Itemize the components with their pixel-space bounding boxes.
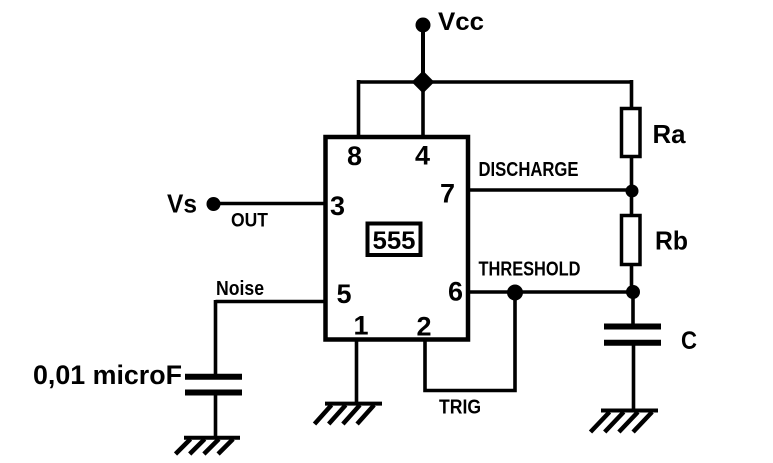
ground noise cap	[176, 438, 241, 454]
svg-text:555: 555	[373, 227, 416, 255]
wire noise cap lower lead	[214, 394, 218, 438]
svg-text:0,01 microF: 0,01 microF	[33, 360, 182, 390]
wire pin 1 ground lead	[355, 339, 359, 403]
svg-text:TRIG: TRIG	[439, 396, 481, 419]
wire pin 3 output	[215, 202, 325, 206]
label 555 value box	[368, 224, 421, 256]
node trig junction	[507, 285, 523, 301]
wire pin 6 threshold	[468, 290, 634, 294]
wire pin 7 discharge	[468, 188, 633, 192]
svg-text:5: 5	[336, 279, 351, 309]
ground cap C	[591, 411, 659, 433]
svg-text:Rb: Rb	[655, 226, 688, 256]
capacitor C1 C	[604, 324, 661, 330]
svg-text:1: 1	[353, 311, 368, 341]
svg-text:Ra: Ra	[653, 119, 687, 149]
wire cap lower lead	[632, 344, 636, 411]
junction Vcc rail	[412, 71, 435, 94]
wire Vcc stub	[421, 25, 425, 84]
resistor Ra	[622, 109, 641, 157]
svg-text:Vcc: Vcc	[438, 8, 484, 36]
svg-text:2: 2	[416, 312, 431, 342]
svg-text:C: C	[681, 327, 697, 355]
wire Ra top lead	[630, 80, 634, 110]
resistor Rb	[622, 216, 641, 265]
wire pin 2 trigger run	[425, 293, 515, 391]
wire Rb lower lead	[630, 264, 634, 293]
svg-text:Vs: Vs	[167, 189, 197, 219]
node Vs terminal dot	[207, 197, 221, 211]
capacitor C2 0,01 microF	[185, 374, 242, 380]
wire pin 4 drop	[421, 80, 425, 139]
svg-text:THRESHOLD: THRESHOLD	[479, 258, 581, 281]
op-amp U1 555 IC body	[326, 137, 469, 340]
node discharge junction	[626, 185, 639, 198]
svg-text:Noise: Noise	[216, 277, 264, 300]
wire pin 5 noise	[216, 300, 326, 304]
wire pin 8 drop	[357, 80, 361, 139]
wire top rail	[357, 80, 633, 84]
node Vcc terminal dot	[416, 18, 431, 33]
wire noise cap upper lead	[214, 300, 218, 375]
ground pin 1	[315, 404, 383, 424]
wire Ra to Rb	[630, 156, 634, 216]
svg-text:3: 3	[330, 191, 345, 221]
svg-text:OUT: OUT	[231, 210, 268, 232]
svg-text:7: 7	[440, 179, 455, 209]
svg-text:8: 8	[347, 141, 362, 171]
svg-text:6: 6	[448, 277, 463, 307]
svg-text:DISCHARGE: DISCHARGE	[479, 159, 579, 181]
svg-text:4: 4	[415, 141, 430, 171]
wire threshold to cap	[631, 292, 635, 327]
node threshold junction	[626, 285, 640, 299]
